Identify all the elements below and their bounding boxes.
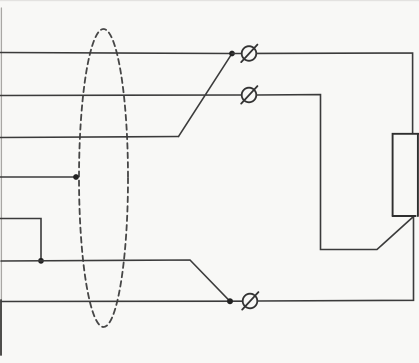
- node C junction dot: [38, 258, 44, 264]
- terminal T3 (slashed circle): [242, 292, 258, 310]
- node D junction dot: [227, 298, 233, 304]
- wire 4 (ends at dot B): [0, 176, 76, 178]
- wire: left scan-edge vertical dark lower part: [0, 300, 2, 355]
- wire 1 (top): [0, 53, 232, 54]
- wire: T1 to box top: [256, 53, 412, 134]
- wire: T2 right, down and across to box bottom-right: [256, 95, 413, 250]
- shield ellipse (dashed): [79, 29, 128, 327]
- wire: node A to terminal T1: [232, 53, 242, 55]
- terminal T2 (slashed circle): [241, 86, 257, 104]
- wire 7 (bottom): [1, 300, 243, 302]
- wire 2: [0, 94, 242, 97]
- wire: left scan-edge vertical (faint): [0, 8, 2, 300]
- component box U1 (right edge, clipped): [393, 134, 419, 216]
- wire 6 with diagonal down to node D: [1, 260, 230, 301]
- node B junction dot: [73, 174, 79, 180]
- node A junction dot: [229, 51, 235, 57]
- wire 3: [0, 137, 179, 138]
- wire 5 (steps down to wire 6): [0, 219, 41, 262]
- terminal T1 (slashed circle): [241, 45, 257, 63]
- wire: T3 right then up to box bottom-right corner: [257, 217, 413, 302]
- wire: diagonal from wire 3 up to node A: [179, 54, 233, 137]
